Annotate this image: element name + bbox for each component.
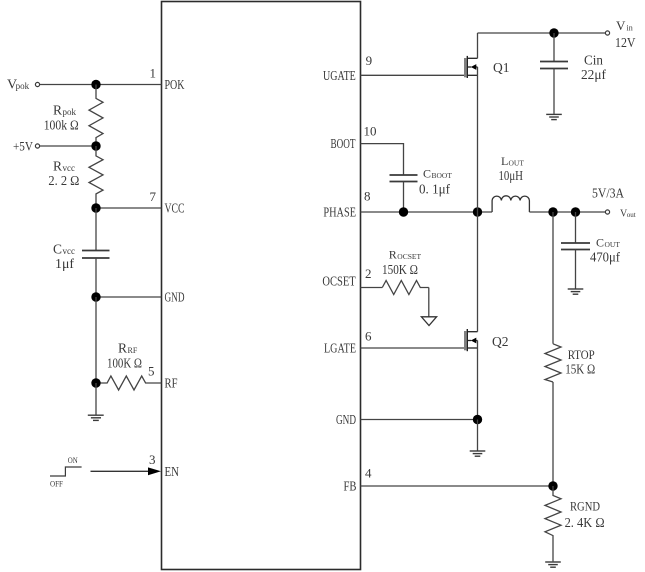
svg-text:BOOT: BOOT	[331, 137, 356, 152]
wire GND pin left	[96, 296, 162, 298]
svg-text:BOOT: BOOT	[432, 171, 453, 180]
ground arrow OCSET	[421, 317, 436, 326]
label Cvcc	[53, 242, 75, 257]
svg-text:2: 2	[365, 266, 372, 281]
svg-text:8: 8	[364, 189, 371, 204]
label Rpok	[53, 103, 77, 118]
wire GND pin right	[361, 419, 478, 421]
junction node +5V	[91, 141, 100, 150]
svg-text:RF: RF	[165, 377, 178, 392]
junction node RF	[91, 378, 100, 387]
wire BOOT pin	[361, 144, 404, 175]
svg-text:OUT: OUT	[605, 240, 621, 249]
terminal Vin open circle	[605, 31, 609, 35]
svg-text:RF: RF	[128, 346, 138, 355]
arrowhead EN	[148, 467, 161, 475]
svg-text:9: 9	[366, 53, 373, 68]
ground below Q2	[470, 451, 486, 456]
wire Q2 source down	[477, 341, 479, 420]
wire Vin rail	[478, 32, 606, 34]
svg-text:Q1: Q1	[493, 61, 510, 76]
wire EN arrow	[91, 470, 150, 472]
svg-text:10: 10	[364, 124, 377, 139]
resistor RTOP	[545, 344, 561, 382]
svg-text:OUT: OUT	[509, 159, 525, 168]
svg-text:100K Ω: 100K Ω	[107, 356, 142, 371]
ground below RGND	[545, 562, 561, 567]
wire OCSET pin	[361, 287, 383, 289]
capacitor Cin	[540, 62, 568, 69]
resistor Rpok	[89, 85, 103, 147]
svg-text:10μH: 10μH	[499, 168, 524, 183]
wire Cin to ground	[553, 69, 555, 114]
svg-text:C: C	[53, 242, 62, 257]
inductor LOUT	[492, 196, 529, 212]
terminal +5V open circle	[35, 144, 39, 148]
svg-text:ON: ON	[68, 455, 78, 465]
transistor Q2	[465, 329, 477, 351]
wire Q2 drain up to PHASE	[477, 212, 479, 332]
junction node RTOP top	[548, 207, 557, 216]
svg-text:1μf: 1μf	[55, 256, 75, 271]
svg-text:L: L	[501, 154, 508, 168]
wire Q1 drain up	[477, 33, 479, 58]
junction node GND left	[91, 292, 100, 301]
svg-text:15K Ω: 15K Ω	[565, 362, 595, 377]
svg-text:FB: FB	[344, 480, 357, 495]
ground below Cin	[546, 114, 562, 119]
svg-text:R: R	[118, 341, 127, 356]
svg-text:7: 7	[150, 189, 157, 204]
svg-text:100k Ω: 100k Ω	[44, 118, 79, 133]
wire FB pin	[361, 485, 554, 487]
svg-text:+5V: +5V	[13, 139, 34, 154]
svg-text:vcc: vcc	[63, 163, 76, 173]
wire Q1 source down to PHASE	[477, 67, 479, 212]
svg-text:V: V	[616, 18, 626, 33]
wire RTOP to FB	[552, 382, 554, 486]
svg-text:PHASE: PHASE	[323, 206, 356, 221]
junction node VCC	[91, 203, 100, 212]
svg-text:2. 2 Ω: 2. 2 Ω	[48, 173, 79, 188]
wire PHASE	[361, 211, 493, 213]
terminal Vout open circle	[605, 210, 609, 214]
svg-text:C: C	[423, 167, 431, 181]
svg-text:470μf: 470μf	[590, 250, 620, 265]
label Rvcc	[53, 159, 75, 174]
junction node PHASE/Q1	[473, 207, 482, 216]
svg-text:4: 4	[365, 466, 372, 481]
ground below COUT	[568, 289, 584, 294]
svg-text:22μf: 22μf	[581, 67, 606, 82]
wire Cvcc to GND node	[95, 258, 97, 297]
wire GND node to ground	[477, 420, 479, 451]
junction node COUT	[571, 207, 580, 216]
svg-text:GND: GND	[336, 413, 356, 428]
svg-text:OCSET: OCSET	[397, 252, 421, 261]
svg-text:RGND: RGND	[570, 499, 600, 514]
wire RTOP top segment	[552, 212, 554, 344]
svg-text:RTOP: RTOP	[568, 347, 595, 362]
svg-text:1: 1	[150, 66, 157, 81]
svg-text:UGATE: UGATE	[323, 69, 356, 84]
label ROCSET	[389, 248, 422, 262]
terminal Vpok open circle	[35, 82, 39, 86]
wire to COUT	[575, 212, 577, 243]
EN on/off step waveform	[50, 467, 82, 476]
wire VCC pin	[96, 207, 162, 209]
svg-text:EN: EN	[165, 465, 180, 480]
resistor RGND	[545, 486, 561, 561]
svg-text:LGATE: LGATE	[324, 342, 356, 357]
wire Vpok to POK pin	[40, 84, 162, 86]
wire ROCSET down	[428, 288, 430, 317]
wire Vin to Cin	[553, 33, 555, 62]
svg-text:6: 6	[365, 329, 372, 344]
node Vpok terminal label	[7, 78, 30, 93]
svg-text:Cin: Cin	[584, 52, 603, 67]
svg-text:12V: 12V	[615, 35, 636, 50]
wire +5V to Rvcc	[40, 145, 96, 147]
svg-text:OFF: OFF	[50, 479, 63, 489]
svg-text:pok: pok	[16, 81, 30, 91]
label Vout	[620, 209, 636, 220]
svg-text:vcc: vcc	[63, 246, 76, 256]
svg-text:out: out	[627, 211, 636, 219]
label COUT	[596, 236, 620, 250]
svg-text:Q2: Q2	[492, 335, 509, 350]
svg-text:pok: pok	[63, 107, 77, 117]
resistor ROCSET	[382, 281, 429, 295]
svg-text:POK: POK	[165, 78, 185, 93]
svg-text:R: R	[53, 159, 62, 174]
junction node GND/Q2	[473, 415, 482, 424]
capacitor COUT	[561, 243, 590, 250]
svg-text:C: C	[596, 236, 604, 250]
wire COUT to ground	[575, 250, 577, 289]
transistor Q1	[465, 56, 477, 78]
label CBOOT	[423, 167, 452, 181]
junction node POK	[91, 80, 100, 89]
svg-text:GND: GND	[165, 291, 185, 306]
wire CBOOT to PHASE	[403, 182, 405, 213]
svg-text:in: in	[627, 24, 633, 33]
wire VCC to Cvcc	[95, 208, 97, 251]
resistor RRF	[96, 376, 162, 390]
wire LOUT to Vout	[529, 211, 605, 213]
junction node FB	[548, 481, 557, 490]
resistor Rvcc	[89, 146, 103, 208]
label LOUT	[501, 154, 524, 168]
junction node Vin	[549, 28, 558, 37]
label RRF	[118, 341, 138, 356]
svg-text:R: R	[53, 103, 62, 118]
wire UGATE to Q1 gate	[361, 74, 465, 76]
svg-text:R: R	[389, 248, 397, 262]
capacitor Cvcc	[82, 251, 110, 259]
svg-text:150K Ω: 150K Ω	[382, 262, 418, 277]
svg-text:5: 5	[148, 364, 155, 379]
svg-text:OCSET: OCSET	[322, 275, 356, 290]
svg-text:VCC: VCC	[165, 202, 185, 217]
svg-text:5V/3A: 5V/3A	[592, 185, 624, 200]
wire LGATE to Q2 gate	[361, 347, 465, 349]
svg-text:0. 1μf: 0. 1μf	[419, 181, 450, 196]
wire RF node to ground	[95, 383, 97, 415]
wire GND node to RF node	[95, 297, 97, 383]
junction node CBOOT/PHASE	[399, 207, 408, 216]
svg-text:2. 4K Ω: 2. 4K Ω	[565, 515, 605, 530]
svg-text:3: 3	[149, 452, 156, 467]
IC U1 body	[162, 2, 361, 570]
capacitor CBOOT	[390, 175, 418, 182]
ground below RF node	[88, 415, 104, 420]
label Vin	[616, 18, 633, 33]
